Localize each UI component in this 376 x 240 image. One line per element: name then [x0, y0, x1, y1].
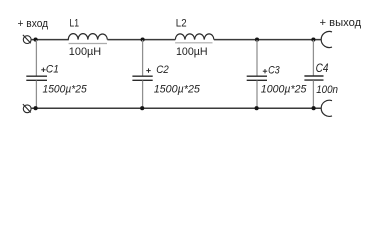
wire: C3 vertical top: [256, 40, 258, 76]
inductor L1: [68, 34, 107, 40]
node junction bottom of C4: [312, 106, 316, 110]
svg-text:C4: C4: [316, 63, 329, 75]
attribute underline of L1: [69, 43, 107, 45]
node junction top of C3: [255, 38, 259, 42]
svg-text:1500µ*25: 1500µ*25: [154, 83, 201, 95]
wire: C3 vertical bottom: [256, 81, 258, 109]
svg-text:100µH: 100µH: [69, 46, 101, 58]
wire: C4 vertical bottom: [312, 80, 314, 108]
node junction top of C2: [141, 38, 145, 42]
wire: C2 vertical top: [142, 40, 144, 76]
svg-text:L1: L1: [69, 17, 79, 29]
attribute underline of L2: [175, 42, 212, 44]
connector input bottom (circle with slash): [23, 104, 31, 113]
wire: L2 to output: [214, 39, 322, 41]
wire: C1 vertical top: [35, 40, 37, 76]
svg-text:100µH: 100µH: [176, 46, 208, 58]
svg-text:1000µ*25: 1000µ*25: [261, 83, 307, 95]
svg-text:C3: C3: [268, 64, 280, 76]
connector input top (circle with slash): [23, 35, 31, 44]
svg-text:C1: C1: [46, 64, 59, 76]
connector output top (socket arc): [321, 31, 332, 47]
capacitor C4 plates: [304, 76, 323, 80]
svg-text:100n: 100n: [316, 84, 338, 96]
polarity mark + of C2: [146, 68, 150, 72]
wire: C4 vertical top: [312, 40, 314, 76]
svg-text:C2: C2: [156, 64, 169, 76]
wire: L1 to L2: [107, 39, 175, 41]
svg-text:+ вход: + вход: [18, 18, 49, 30]
node junction top of C4: [311, 38, 315, 42]
wire: bottom rail: [31, 107, 321, 109]
capacitor C2 plates: [132, 76, 152, 80]
node junction bottom of C1: [34, 106, 38, 110]
wire: input top to L1: [31, 39, 69, 41]
inductor L2: [175, 34, 214, 40]
node junction bottom of C3: [255, 106, 259, 110]
capacitor C3 plates: [247, 76, 267, 80]
svg-text:+ выход: + выход: [320, 17, 362, 29]
connector output bottom (socket arc): [321, 100, 332, 116]
wire: C2 vertical bottom: [142, 81, 144, 109]
node junction top of C1: [34, 38, 38, 42]
svg-text:1500µ*25: 1500µ*25: [43, 83, 88, 95]
svg-text:L2: L2: [176, 17, 187, 29]
polarity mark + of C3: [263, 69, 267, 73]
wire: C1 vertical bottom: [35, 81, 37, 109]
capacitor C1 plates: [26, 76, 47, 80]
node junction bottom of C2: [140, 106, 144, 110]
polarity mark + of C1: [41, 68, 45, 72]
